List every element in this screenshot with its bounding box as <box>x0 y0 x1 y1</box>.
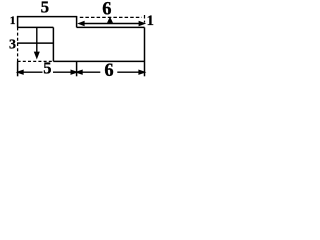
wire left edge solid V1a <box>17 16 19 27</box>
wire bottom hidden H6a <box>18 60 54 62</box>
wire bottom edge solid H6b <box>53 60 144 62</box>
wire middle extension tick T2 <box>76 61 78 76</box>
dimension line bottom 6 <box>77 71 100 73</box>
svg-text:6: 6 <box>102 0 111 20</box>
svg-text:3: 3 <box>9 38 16 53</box>
dimension arrow 3 down <box>36 28 38 56</box>
wire left extension tick T1 <box>17 61 19 76</box>
dimension line bottom 5 <box>18 71 42 73</box>
dimension arrow up under 6 <box>109 19 111 24</box>
wire left edge hidden V1b <box>17 27 19 61</box>
wire right dashed extension V4ext <box>144 15 146 23</box>
wire inner top edge H4 <box>18 26 54 28</box>
wire inner middle edge H5 <box>17 42 53 44</box>
svg-text:6: 6 <box>104 61 113 80</box>
wire step vertical V2 <box>76 16 78 27</box>
background <box>0 0 162 80</box>
wire right edge V4 <box>144 27 146 76</box>
wire top-right edge H2b <box>77 26 145 28</box>
wire top-left edge H1 <box>17 16 77 18</box>
svg-text:5: 5 <box>43 59 51 78</box>
svg-text:5: 5 <box>41 0 50 17</box>
svg-text:1: 1 <box>147 13 154 29</box>
dimension line 6 middle H2a with arrows <box>80 23 144 25</box>
svg-text:1: 1 <box>10 15 16 27</box>
wire inner vertical V3 <box>52 27 54 61</box>
wire top dashed projection H3 <box>80 16 142 18</box>
